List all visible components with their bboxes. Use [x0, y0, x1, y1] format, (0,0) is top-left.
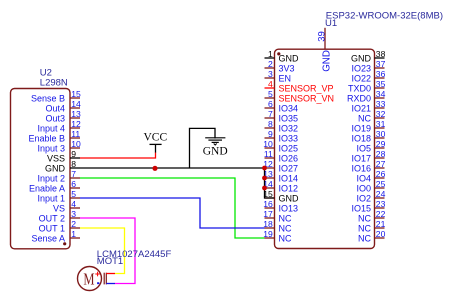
svg-text:IO14: IO14 — [279, 174, 299, 184]
U1 pin 35 TXD0 (right) — [348, 79, 386, 94]
svg-text:28: 28 — [376, 149, 386, 159]
svg-text:IO2: IO2 — [356, 194, 371, 204]
U1 pin 34 RXD0 (right) — [347, 89, 386, 104]
U2 pin 10 Input 3 — [37, 139, 81, 154]
wire GND net: ground symbol drop — [190, 128, 216, 168]
U1 pin 1 GND (left) — [265, 49, 300, 64]
svg-text:Out3: Out3 — [45, 114, 65, 124]
svg-text:IO26: IO26 — [279, 154, 299, 164]
svg-text:IO18: IO18 — [351, 134, 371, 144]
svg-text:13: 13 — [71, 109, 81, 119]
U1 pin 17 NC (left) — [263, 209, 292, 224]
U2 pin 3 OUT 2 — [39, 209, 80, 224]
svg-text:24: 24 — [376, 189, 386, 199]
U1 pin 24 IO2 (right) — [356, 189, 385, 204]
svg-text:21: 21 — [376, 219, 386, 229]
U1 pin 32 NC (right) — [358, 109, 386, 124]
svg-text:35: 35 — [376, 79, 386, 89]
U2 pin 8 GND — [45, 159, 80, 174]
U1 pin 25 IO0 (right) — [356, 179, 385, 194]
svg-text:14: 14 — [71, 99, 81, 109]
svg-text:30: 30 — [376, 129, 386, 139]
svg-text:IO13: IO13 — [279, 204, 299, 214]
svg-text:Out4: Out4 — [45, 104, 65, 114]
IC U2 L298N body — [11, 89, 71, 249]
U2 pin 11 Enable B — [28, 129, 80, 144]
svg-text:VSS: VSS — [47, 154, 65, 164]
svg-text:39: 39 — [316, 31, 327, 42]
svg-text:3V3: 3V3 — [279, 64, 295, 74]
svg-text:IO23: IO23 — [351, 64, 371, 74]
svg-text:IO32: IO32 — [279, 124, 299, 134]
svg-text:10: 10 — [71, 139, 81, 149]
svg-text:L298N: L298N — [40, 78, 68, 89]
U1 pin 4 SENSOR_VP (left) — [265, 79, 334, 94]
svg-text:36: 36 — [376, 69, 386, 79]
U2 pin 9 VSS — [47, 149, 80, 164]
motor MOT1 LCM1027A2445F — [78, 267, 107, 291]
wire net OUT1: U2 pin2 to motor plus (yellow) — [80, 228, 125, 274]
wire net Input1: U2 pin5 to U1 pin18 (blue) — [80, 198, 265, 228]
svg-text:NC: NC — [358, 234, 371, 244]
U1 pin 8 IO32 (left) — [265, 119, 299, 134]
svg-text:M: M — [83, 271, 94, 289]
svg-text:6: 6 — [71, 179, 76, 189]
U1 pin 22 NC (right) — [358, 209, 386, 224]
U2 pin 6 Enable A — [29, 179, 80, 194]
wire net OUT2: U2 pin3 to motor minus (magenta) — [80, 218, 135, 284]
U1 pin 39 GND (top) — [316, 28, 332, 72]
U2 origin dot at pin 1 — [63, 242, 66, 245]
svg-text:6: 6 — [268, 99, 273, 109]
svg-text:11: 11 — [264, 149, 273, 159]
svg-text:NC: NC — [279, 214, 292, 224]
svg-text:5: 5 — [71, 189, 76, 199]
svg-text:GND: GND — [351, 54, 372, 64]
U1 pin 12 IO27 (left) — [263, 159, 298, 174]
U1 pin 13 IO14 (left) — [263, 169, 298, 184]
U1 pin 18 NC (left) — [263, 219, 292, 234]
svg-text:15: 15 — [71, 89, 81, 99]
svg-text:IO17: IO17 — [351, 154, 371, 164]
svg-text:IO35: IO35 — [279, 114, 299, 124]
svg-text:TXD0: TXD0 — [348, 84, 371, 94]
svg-text:1: 1 — [71, 229, 76, 239]
junction on GND wire below VCC — [152, 166, 157, 171]
svg-text:33: 33 — [376, 99, 386, 109]
svg-text:IO4: IO4 — [356, 174, 371, 184]
svg-text:VCC: VCC — [143, 132, 167, 144]
svg-text:IO16: IO16 — [351, 164, 371, 174]
U1 pin 19 NC (left) — [263, 229, 292, 244]
svg-text:GND: GND — [321, 50, 332, 72]
svg-text:23: 23 — [376, 199, 386, 209]
power symbol VCC — [143, 132, 167, 153]
svg-text:VS: VS — [53, 204, 65, 214]
svg-text:1: 1 — [268, 49, 273, 59]
svg-text:11: 11 — [71, 129, 80, 139]
svg-text:9: 9 — [71, 149, 76, 159]
svg-text:12: 12 — [71, 119, 81, 129]
wire VCC net: U2 pin9 VSS to VCC symbol — [80, 153, 156, 158]
ground symbol GND — [203, 138, 228, 158]
svg-text:3: 3 — [268, 69, 273, 79]
junction at U1 pin 13 — [262, 176, 267, 181]
U1 pin 23 IO15 (right) — [351, 199, 385, 214]
U2 pin 15 Sense B — [31, 89, 81, 104]
svg-text:2: 2 — [268, 59, 273, 69]
svg-text:34: 34 — [376, 89, 386, 99]
U1 pin 38 GND (right) — [351, 49, 386, 64]
svg-text:Input 1: Input 1 — [37, 194, 65, 204]
svg-text:9: 9 — [268, 129, 273, 139]
U1 pin 20 NC (right) — [358, 229, 386, 244]
U1 pin 33 IO21 (right) — [351, 99, 385, 114]
svg-text:Sense A: Sense A — [31, 234, 65, 244]
svg-text:19: 19 — [263, 229, 273, 239]
svg-text:Input 3: Input 3 — [37, 144, 65, 154]
U1 pin 28 IO17 (right) — [351, 149, 385, 164]
U1 pin 30 IO18 (right) — [351, 129, 385, 144]
svg-text:Input 2: Input 2 — [37, 174, 65, 184]
svg-text:4: 4 — [268, 79, 273, 89]
svg-text:18: 18 — [263, 219, 273, 229]
svg-text:Input 4: Input 4 — [37, 124, 65, 134]
svg-text:IO0: IO0 — [356, 184, 371, 194]
svg-text:NC: NC — [358, 214, 371, 224]
svg-text:4: 4 — [71, 199, 76, 209]
svg-text:IO15: IO15 — [351, 204, 371, 214]
svg-text:IO34: IO34 — [279, 104, 299, 114]
svg-text:22: 22 — [376, 209, 386, 219]
U1 pin 29 IO5 (right) — [356, 139, 385, 154]
svg-text:NC: NC — [279, 224, 292, 234]
U1 pin 9 IO33 (left) — [265, 129, 299, 144]
svg-text:38: 38 — [376, 49, 386, 59]
svg-text:IO19: IO19 — [351, 124, 371, 134]
svg-text:37: 37 — [376, 59, 386, 69]
U1 pin 21 NC (right) — [358, 219, 386, 234]
svg-text:IO25: IO25 — [279, 144, 299, 154]
svg-text:Sense B: Sense B — [31, 94, 65, 104]
motor pin - stub (blue) — [106, 283, 115, 285]
svg-text:8: 8 — [268, 119, 273, 129]
svg-text:32: 32 — [376, 109, 386, 119]
U1 pin 11 IO26 (left) — [264, 149, 298, 164]
svg-text:NC: NC — [358, 224, 371, 234]
svg-text:GND: GND — [279, 54, 300, 64]
U1 pin 3 EN (left) — [265, 69, 292, 84]
svg-text:OUT 1: OUT 1 — [39, 224, 65, 234]
U2 pin 4 VS — [53, 199, 80, 214]
U1 pin 6 IO34 (left) — [265, 99, 299, 114]
motor pin + stub (red) — [106, 273, 115, 275]
U2 pin 7 Input 2 — [37, 169, 80, 184]
svg-text:IO5: IO5 — [356, 144, 371, 154]
U1 pin 37 IO23 (right) — [351, 59, 385, 74]
svg-text:IO22: IO22 — [351, 74, 371, 84]
svg-text:Enable B: Enable B — [28, 134, 65, 144]
U2 pin 1 Sense A — [31, 229, 80, 244]
U1 pin 5 SENSOR_VN (left) — [265, 89, 335, 104]
svg-text:RXD0: RXD0 — [347, 94, 371, 104]
U1 pin 2 3V3 (left) — [265, 59, 295, 74]
svg-text:31: 31 — [376, 119, 386, 129]
svg-text:3: 3 — [71, 209, 76, 219]
U1 pin 26 IO4 (right) — [356, 169, 385, 184]
svg-text:GND: GND — [203, 145, 228, 157]
svg-text:SENSOR_VN: SENSOR_VN — [279, 94, 335, 104]
svg-text:GND: GND — [279, 194, 300, 204]
U2 pin 12 Input 4 — [37, 119, 81, 134]
svg-text:GND: GND — [45, 164, 66, 174]
svg-text:Enable A: Enable A — [29, 184, 65, 194]
svg-text:OUT 2: OUT 2 — [39, 214, 65, 224]
U2 pin 13 Out3 — [45, 109, 80, 124]
svg-text:IO33: IO33 — [279, 134, 299, 144]
svg-text:7: 7 — [268, 109, 273, 119]
wire GND net: U2 pin8 GND to U1 pin12 — [80, 167, 265, 169]
svg-text:27: 27 — [376, 159, 386, 169]
svg-text:ESP32-WROOM-32E(8MB): ESP32-WROOM-32E(8MB) — [326, 11, 443, 22]
U1 pin 15 GND (left) — [263, 189, 299, 204]
U1 origin dot at pin 1 — [277, 52, 280, 55]
svg-text:MOT1: MOT1 — [97, 256, 123, 267]
IC U1 ESP32-WROOM-32E(8MB) body — [275, 49, 375, 248]
svg-text:NC: NC — [358, 114, 371, 124]
svg-text:7: 7 — [71, 169, 76, 179]
U2 pin 5 Input 1 — [37, 189, 80, 204]
U2 pin 14 Out4 — [45, 99, 80, 114]
U1 pin 31 IO19 (right) — [351, 119, 385, 134]
svg-text:29: 29 — [376, 139, 386, 149]
svg-text:26: 26 — [376, 169, 386, 179]
U1 pin 16 IO13 (left) — [263, 199, 298, 214]
U1 pin 7 IO35 (left) — [265, 109, 299, 124]
junction at U1 pin 12 — [262, 166, 267, 171]
svg-text:25: 25 — [376, 179, 386, 189]
svg-text:2: 2 — [71, 219, 76, 229]
svg-text:8: 8 — [71, 159, 76, 169]
U1 pin 10 IO25 (left) — [263, 139, 298, 154]
U2 pin 2 OUT 1 — [39, 219, 80, 234]
svg-text:IO12: IO12 — [279, 184, 299, 194]
svg-text:IO21: IO21 — [351, 104, 371, 114]
svg-text:NC: NC — [279, 234, 292, 244]
svg-text:IO27: IO27 — [279, 164, 299, 174]
wire net Input2: U2 pin7 to U1 pin19 (green) — [80, 178, 265, 238]
svg-text:16: 16 — [263, 199, 273, 209]
svg-text:SENSOR_VP: SENSOR_VP — [279, 84, 334, 94]
U1 pin 36 IO22 (right) — [351, 69, 385, 84]
svg-text:EN: EN — [279, 74, 292, 84]
U1 pin 27 IO16 (right) — [351, 159, 385, 174]
junction at U1 pin 14 — [262, 186, 267, 191]
wire GND net: vertical bus U1 pins 12-15 — [265, 168, 275, 198]
svg-text:5: 5 — [268, 89, 273, 99]
svg-text:17: 17 — [263, 209, 273, 219]
svg-text:U1: U1 — [325, 18, 337, 29]
svg-text:20: 20 — [376, 229, 386, 239]
svg-text:10: 10 — [263, 139, 273, 149]
U1 pin 14 IO12 (left) — [263, 179, 298, 194]
